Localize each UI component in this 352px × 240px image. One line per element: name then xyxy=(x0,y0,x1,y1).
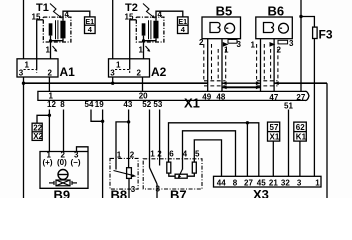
B5 pin 1 plug arrow xyxy=(223,42,229,47)
wire: T1 terminal 4 to E1 xyxy=(63,11,90,21)
svg-text:2: 2 xyxy=(130,151,135,160)
wire: X1 pin 52 to B7 pin 1 xyxy=(149,110,151,168)
wire: X1 pin 8 to B9 pin 2 xyxy=(63,110,65,152)
svg-text:B7: B7 xyxy=(170,187,187,198)
svg-text:3: 3 xyxy=(237,40,242,49)
node: junction A2 pin3 / ground bus xyxy=(111,82,114,85)
ground bus right section to right drop xyxy=(274,82,327,84)
svg-text:X2: X2 xyxy=(33,132,43,141)
B7 wiper arrow from pin 4 xyxy=(179,169,183,176)
svg-text:47: 47 xyxy=(269,93,278,102)
svg-text:1: 1 xyxy=(139,46,144,55)
svg-text:2: 2 xyxy=(137,69,142,78)
svg-text:(−): (−) xyxy=(71,158,81,167)
wire: 62/K1 down to X3 pin 3 xyxy=(299,141,301,176)
wire: ground bus right drop to bottom edge xyxy=(326,83,328,198)
wire: B8 pin 3 to bottom edge xyxy=(128,178,130,198)
svg-text:B9: B9 xyxy=(54,187,71,198)
svg-text:8: 8 xyxy=(60,100,65,109)
spark arrow at T1 terminal 4 xyxy=(50,4,61,18)
svg-text:X3: X3 xyxy=(253,187,269,198)
svg-text:K1: K1 xyxy=(296,133,307,142)
svg-text:1: 1 xyxy=(315,178,320,187)
connector E1 (right, spark plugs of T2) xyxy=(178,17,189,34)
svg-text:3: 3 xyxy=(297,178,302,187)
B5 pin 3 tab xyxy=(228,40,237,44)
svg-text:4: 4 xyxy=(183,150,188,159)
B6 circle symbol xyxy=(279,23,289,33)
arrow at T1 terminal 1 xyxy=(53,46,57,51)
svg-text:X1: X1 xyxy=(184,96,200,111)
svg-text:2: 2 xyxy=(48,69,53,78)
svg-text:6: 6 xyxy=(169,150,174,159)
svg-text:49: 49 xyxy=(202,92,211,101)
svg-text:8: 8 xyxy=(233,178,238,187)
svg-text:3: 3 xyxy=(156,185,161,194)
B8 resistor xyxy=(127,168,132,179)
svg-text:1: 1 xyxy=(25,61,30,70)
wire: B6 pin 1 down to X1 xyxy=(260,39,262,92)
wire: A2 pin 2 to X1 pin 20 xyxy=(142,77,144,91)
svg-text:43: 43 xyxy=(123,100,132,109)
wire: B7 pin 4 up and over to X3 pin 8 xyxy=(183,131,236,177)
svg-text:54: 54 xyxy=(85,100,94,109)
wire: B7 pin 3 to bottom edge xyxy=(156,184,158,199)
svg-text:57: 57 xyxy=(270,123,279,132)
svg-text:B6: B6 xyxy=(268,3,285,18)
svg-text:3: 3 xyxy=(131,185,136,194)
B7 right resistor xyxy=(192,162,196,173)
wire: shield link B5 pin1 to B6 pin1 xyxy=(222,86,261,88)
node: junction X3 pin 27 branch xyxy=(246,121,249,124)
svg-text:1: 1 xyxy=(117,151,122,160)
connector X3 box xyxy=(214,176,322,187)
sensor B9 box with tab xyxy=(40,147,88,189)
svg-text:21: 21 xyxy=(269,178,278,187)
svg-text:(+): (+) xyxy=(43,158,53,167)
B7 resistor bottom links xyxy=(169,173,175,176)
svg-text:2: 2 xyxy=(199,38,204,47)
connector X1 long box xyxy=(38,91,309,100)
wire: B5 pin 2 down to X1 pin 49 xyxy=(207,39,209,92)
wire: B7 pin 6 up and over to X3 xyxy=(169,123,259,177)
svg-text:1: 1 xyxy=(116,61,121,70)
svg-text:45: 45 xyxy=(257,178,266,187)
node: T1 terminal 1 junction xyxy=(49,39,52,42)
ground bus horizontal left section xyxy=(24,82,208,84)
control unit A1 box xyxy=(17,59,58,77)
wire: X1 pin 19 to bottom edge xyxy=(102,110,104,199)
B5 inductor symbol xyxy=(210,23,220,33)
B6 pin 2 plug arrow xyxy=(270,42,276,47)
svg-text:3: 3 xyxy=(289,39,294,48)
B6 inductor symbol xyxy=(264,23,274,33)
wire: F3 down to X3 pin 1 xyxy=(313,39,315,177)
svg-text:B5: B5 xyxy=(216,3,233,18)
B7 left resistor xyxy=(167,162,171,173)
arrow at T2 terminal 1 xyxy=(146,46,150,51)
svg-text:A2: A2 xyxy=(151,65,167,79)
ground bus shield section between B5 and B6 pairs xyxy=(222,82,261,84)
wire: X1 pin 54 joining pin 19 wire xyxy=(91,110,103,122)
svg-text:4: 4 xyxy=(65,10,70,19)
B5 shield dashed lines xyxy=(204,44,226,86)
svg-text:15: 15 xyxy=(125,13,134,22)
connector E1 (left, spark plugs of T1) xyxy=(85,17,96,34)
svg-text:1: 1 xyxy=(46,46,51,55)
svg-text:51: 51 xyxy=(284,102,293,111)
svg-text:3: 3 xyxy=(110,69,115,78)
svg-text:15: 15 xyxy=(32,13,41,22)
A2 pin 1 dashed bracket xyxy=(115,70,130,74)
svg-text:3: 3 xyxy=(19,69,24,78)
B9 valve symbol xyxy=(56,180,70,186)
svg-text:B8: B8 xyxy=(111,187,128,198)
svg-text:1: 1 xyxy=(224,46,229,55)
svg-text:(0): (0) xyxy=(57,158,67,167)
coil T2 core lines xyxy=(148,20,150,39)
svg-text:5: 5 xyxy=(195,150,200,159)
wire: T1 internal bottom link xyxy=(51,36,64,41)
svg-text:48: 48 xyxy=(216,92,225,101)
coil T2 primary winding xyxy=(142,23,146,35)
B8 wiper arrow xyxy=(114,171,135,176)
wire: X1 pin 43 to B8 pin 2 xyxy=(128,110,130,168)
svg-text:2: 2 xyxy=(277,46,282,55)
wire: 57/X1 down to X3 pin 21 xyxy=(272,141,274,176)
A1 pin 1 dashed bracket xyxy=(24,70,37,74)
svg-text:2: 2 xyxy=(157,150,162,159)
coil T1 secondary winding xyxy=(60,21,65,39)
B7 horizontal resistor xyxy=(175,174,187,178)
switch unit B7 dash-dot box xyxy=(143,159,202,189)
wire: B6 pin 2 down to X1 pin 47 xyxy=(273,39,275,92)
wire: A2 pin 3 down to ground bus xyxy=(112,77,114,83)
connector 22/X2 box xyxy=(32,123,42,140)
wire: T2 terminal 15 stub and drop to A2 xyxy=(130,20,137,70)
B7 switch blade xyxy=(150,168,157,184)
wire: X1 pin 12 to B9 pin 1 xyxy=(48,110,50,152)
svg-text:27: 27 xyxy=(244,178,253,187)
wire: X1 pin 53 to B7 pin 2 xyxy=(159,110,161,166)
wire: T2 terminal 1 down into A2 xyxy=(143,41,145,59)
wire: X1 pin 51 to X3 pin 32 xyxy=(288,110,290,177)
wire: T2 terminal 4 to E1 xyxy=(156,11,183,21)
control unit A2 box xyxy=(109,59,150,77)
fuse F3 xyxy=(300,0,302,91)
svg-text:62: 62 xyxy=(296,123,305,132)
wire: A1 pin 3 down to ground bus and to bottom edge xyxy=(23,77,25,198)
svg-text:53: 53 xyxy=(153,100,162,109)
wire: branch to connector 22/X2 xyxy=(37,115,49,123)
svg-text:4: 4 xyxy=(158,10,163,19)
connector 57/X1 box xyxy=(268,122,280,141)
svg-text:X1: X1 xyxy=(270,133,280,142)
wire: branch to B8 pin 1 xyxy=(116,122,129,170)
wire: B7 pin 5 up and over to X3 pin 44 xyxy=(194,140,221,176)
wire: left supply feed into A1 pin 1 xyxy=(23,0,25,59)
svg-text:44: 44 xyxy=(217,178,226,187)
wire: A2 feed from top edge xyxy=(112,0,114,59)
node: junction 54/19 xyxy=(101,120,104,123)
svg-text:32: 32 xyxy=(281,178,290,187)
svg-text:F3: F3 xyxy=(319,28,333,42)
B6 shield dashed lines xyxy=(257,44,278,86)
coil T2 dash-dot housing xyxy=(136,17,164,42)
svg-text:12: 12 xyxy=(47,100,56,109)
coil T2 secondary winding xyxy=(153,21,158,39)
coil T1 core lines xyxy=(55,20,57,39)
node: junction F3 branch xyxy=(299,15,302,18)
wire: A1 pin 2 to X1 pin 1 xyxy=(48,77,50,91)
svg-text:19: 19 xyxy=(95,100,104,109)
svg-text:1: 1 xyxy=(251,41,256,50)
node: junction A1 pin3 / ground bus xyxy=(22,82,25,85)
coil T1 dash-dot housing xyxy=(43,17,71,42)
spark arrow at T2 terminal 4 xyxy=(143,4,154,18)
B9 circle symbol xyxy=(58,170,68,180)
wire: T1 terminal 15 stub and drop to A1 xyxy=(37,20,44,70)
B6 pin 3 tab xyxy=(278,40,288,44)
sensor B6 box xyxy=(256,17,292,39)
coil T1 primary winding xyxy=(49,23,53,35)
connector 62/K1 box xyxy=(294,122,307,141)
svg-text:1: 1 xyxy=(150,150,155,159)
svg-text:52: 52 xyxy=(142,100,151,109)
wire: T2 internal bottom link xyxy=(144,36,157,41)
wire: B5 pin 1 down to X1 pin 48 xyxy=(221,39,223,92)
node: junction X2 branch xyxy=(48,114,51,117)
node: junction B8 pin1 branch xyxy=(127,120,130,123)
wire: T1 terminal 1 down into A1 xyxy=(50,41,52,59)
shield ground arrows xyxy=(222,81,227,85)
B5 circle symbol xyxy=(225,23,235,33)
svg-text:27: 27 xyxy=(296,93,305,102)
wire: branch down to X3 pin 27 xyxy=(246,123,248,177)
node: T2 terminal 1 junction xyxy=(142,39,145,42)
sensor B5 box xyxy=(202,17,241,39)
svg-text:A1: A1 xyxy=(60,65,76,79)
sensor B8 dash-dot box xyxy=(110,158,138,189)
